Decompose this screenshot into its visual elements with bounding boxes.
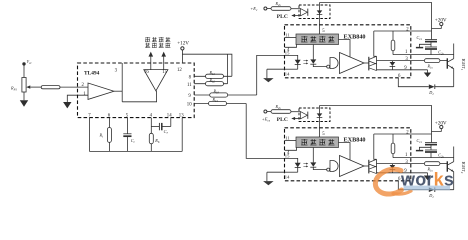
svg-text:PLC: PLC [277, 14, 288, 20]
svg-text:+12V: +12V [177, 40, 189, 46]
svg-text:C2x: C2x [438, 49, 444, 55]
svg-text:C7: C7 [164, 129, 169, 135]
svg-text:+Ecs: +Ecs [262, 117, 271, 123]
svg-text:14: 14 [167, 114, 172, 119]
svg-text:15: 15 [285, 51, 290, 56]
svg-text:Rb2: Rb2 [209, 77, 216, 83]
svg-text:IGBT1: IGBT1 [460, 59, 466, 71]
svg-text:R1x: R1x [427, 63, 434, 69]
svg-text:Vcc: Vcc [27, 59, 33, 65]
svg-text:+20V: +20V [435, 17, 447, 23]
svg-text:Ct: Ct [131, 138, 135, 144]
svg-text:11: 11 [285, 33, 290, 38]
svg-text:R2x: R2x [275, 1, 282, 7]
svg-text:12: 12 [177, 68, 182, 73]
svg-text:TL494: TL494 [84, 70, 100, 76]
svg-text:C1x: C1x [417, 35, 423, 41]
svg-text:D1: D1 [428, 90, 434, 96]
svg-text:IGBT2: IGBT2 [460, 162, 466, 174]
svg-text:Rb3: Rb3 [213, 89, 220, 95]
svg-text:R6: R6 [154, 138, 160, 144]
svg-text:10: 10 [187, 103, 192, 108]
svg-text:14: 14 [285, 72, 290, 77]
svg-text:15: 15 [162, 70, 167, 75]
svg-text:13: 13 [179, 114, 184, 119]
svg-text:+Ec: +Ec [250, 6, 258, 12]
svg-text:Rb1: Rb1 [209, 70, 216, 76]
svg-text:11: 11 [187, 83, 192, 88]
svg-text:Rb4: Rb4 [212, 97, 219, 103]
svg-text:Rt: Rt [99, 133, 104, 139]
svg-text:RP1: RP1 [10, 86, 17, 92]
svg-text:16: 16 [144, 70, 149, 75]
